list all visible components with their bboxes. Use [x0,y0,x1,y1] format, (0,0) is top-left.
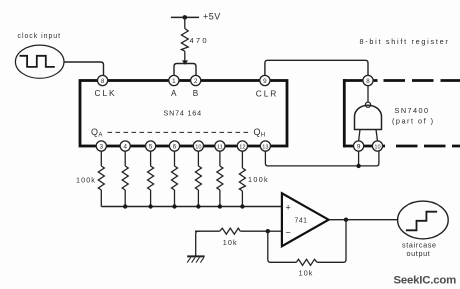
pin 9 (SN7400 input) [354,141,364,151]
resistor R 470 [181,29,208,52]
op-amp U3 741 [282,193,329,246]
pin 3 [96,141,106,151]
resistor 100k at pin 6 [172,151,178,207]
svg-text:8: 8 [366,78,370,85]
NAND gate G1 (inverted orientation) [355,102,382,129]
+5V rail [171,12,221,22]
wire to ground [196,231,200,256]
pin 10 (SN7400 input) [372,141,382,151]
svg-text:10k: 10k [223,238,238,247]
ground [187,256,204,262]
pin 13 [260,141,270,151]
svg-text:CLR: CLR [256,89,278,99]
junction dot pin9 wire [356,164,360,168]
svg-text:+5V: +5V [203,12,221,22]
pin 11 [215,141,225,151]
wire CLR pin9 to SN7400 pin8 [265,60,368,75]
staircase waveform glyph [406,212,437,231]
svg-text:+: + [286,203,291,213]
resistor 10k to ground [195,228,268,247]
svg-text:SN7400: SN7400 [395,106,430,115]
feedback wire down [317,220,346,263]
dashed internal line QA to QH [108,131,252,133]
svg-text:output: output [407,249,431,258]
svg-text:470: 470 [190,36,209,45]
svg-text:10: 10 [195,144,201,150]
svg-text:8: 8 [101,78,105,85]
clock input source symbol (ellipse) [15,45,64,78]
junction dot pin4 bus [123,204,127,208]
svg-text:2: 2 [194,78,198,85]
output wire [329,219,398,221]
svg-text:5: 5 [149,143,153,150]
wire pin9 down [358,151,360,166]
wire pin8 to NAND bubble [367,85,369,102]
staircase output symbol (ellipse) [398,201,449,239]
svg-text:8-bit shift register: 8-bit shift register [360,37,450,46]
pin 8 (CLK) [98,75,108,85]
feedback wire to inverting node [268,231,297,262]
svg-text:−: − [286,228,291,238]
IC U2 SN7400 body (partial, dashed continuation) [343,79,460,147]
svg-text:741: 741 [295,217,308,224]
svg-text:SN74 164: SN74 164 [164,109,202,118]
junction dot output [344,218,348,222]
svg-text:10: 10 [374,144,380,150]
svg-text:CLK: CLK [95,88,117,98]
svg-text:B: B [193,89,199,98]
resistor 100k at pin 10 [195,151,201,207]
svg-text:10k: 10k [299,269,314,278]
pin 1 (A) [169,75,179,85]
pin 4 [120,141,130,151]
wire inverting input [268,230,282,232]
svg-text:SeekIC.com: SeekIC.com [394,274,457,286]
clock square-wave glyph [20,56,55,67]
svg-text:3: 3 [100,143,104,150]
junction dot pin5 bus [148,204,152,208]
pin 6 [169,141,179,151]
svg-text:12: 12 [239,144,245,150]
resistor 100k at pin 5 [148,151,154,207]
label staircase output [402,241,437,258]
svg-text:100k: 100k [76,176,96,185]
junction dot pin6 bus [172,204,176,208]
wire +5V to resistor [184,17,186,28]
resistor 10k feedback [296,259,317,277]
wire resistor to A/B bracket with arrowhead [182,51,188,65]
wire pin13 to NAND inputs [265,151,379,166]
svg-text:100k: 100k [248,175,269,184]
pin 8 (SN7400 output) [363,75,373,85]
svg-text:1: 1 [172,78,176,85]
pin 10 [193,141,203,151]
summing bus wire [101,206,282,208]
pin 9 (CLR) [260,75,270,85]
junction dot pin11 bus [218,204,222,208]
label SN7400 (part of) [392,106,435,125]
svg-text:A: A [171,89,177,98]
svg-text:13: 13 [262,144,268,150]
svg-text:9: 9 [357,143,361,150]
resistor 100k at pin 4 [122,151,128,207]
junction dot pin12 bus [240,204,244,208]
svg-text:11: 11 [217,144,223,150]
junction dot inverting node [266,229,270,233]
NAND input wires [359,130,378,142]
junction dot pin10 bus [196,204,200,208]
resistor 100k at pin 11 [217,151,223,207]
pin 2 (B) [191,75,201,85]
resistor 100k at pin 12 [239,151,245,207]
svg-text:6: 6 [173,143,177,150]
resistor 100k at pin 3 [98,151,104,207]
wire clock to CLK pin [64,62,103,75]
svg-text:9: 9 [263,78,267,85]
svg-text:4: 4 [123,143,127,150]
IC U1 SN74164 body [80,81,287,147]
bracket wire to pins 1 and 2 [174,64,196,76]
pin 5 [146,141,156,151]
svg-text:clock input: clock input [18,33,62,40]
pin 12 [237,141,247,151]
svg-text:(part of ): (part of ) [392,117,435,126]
